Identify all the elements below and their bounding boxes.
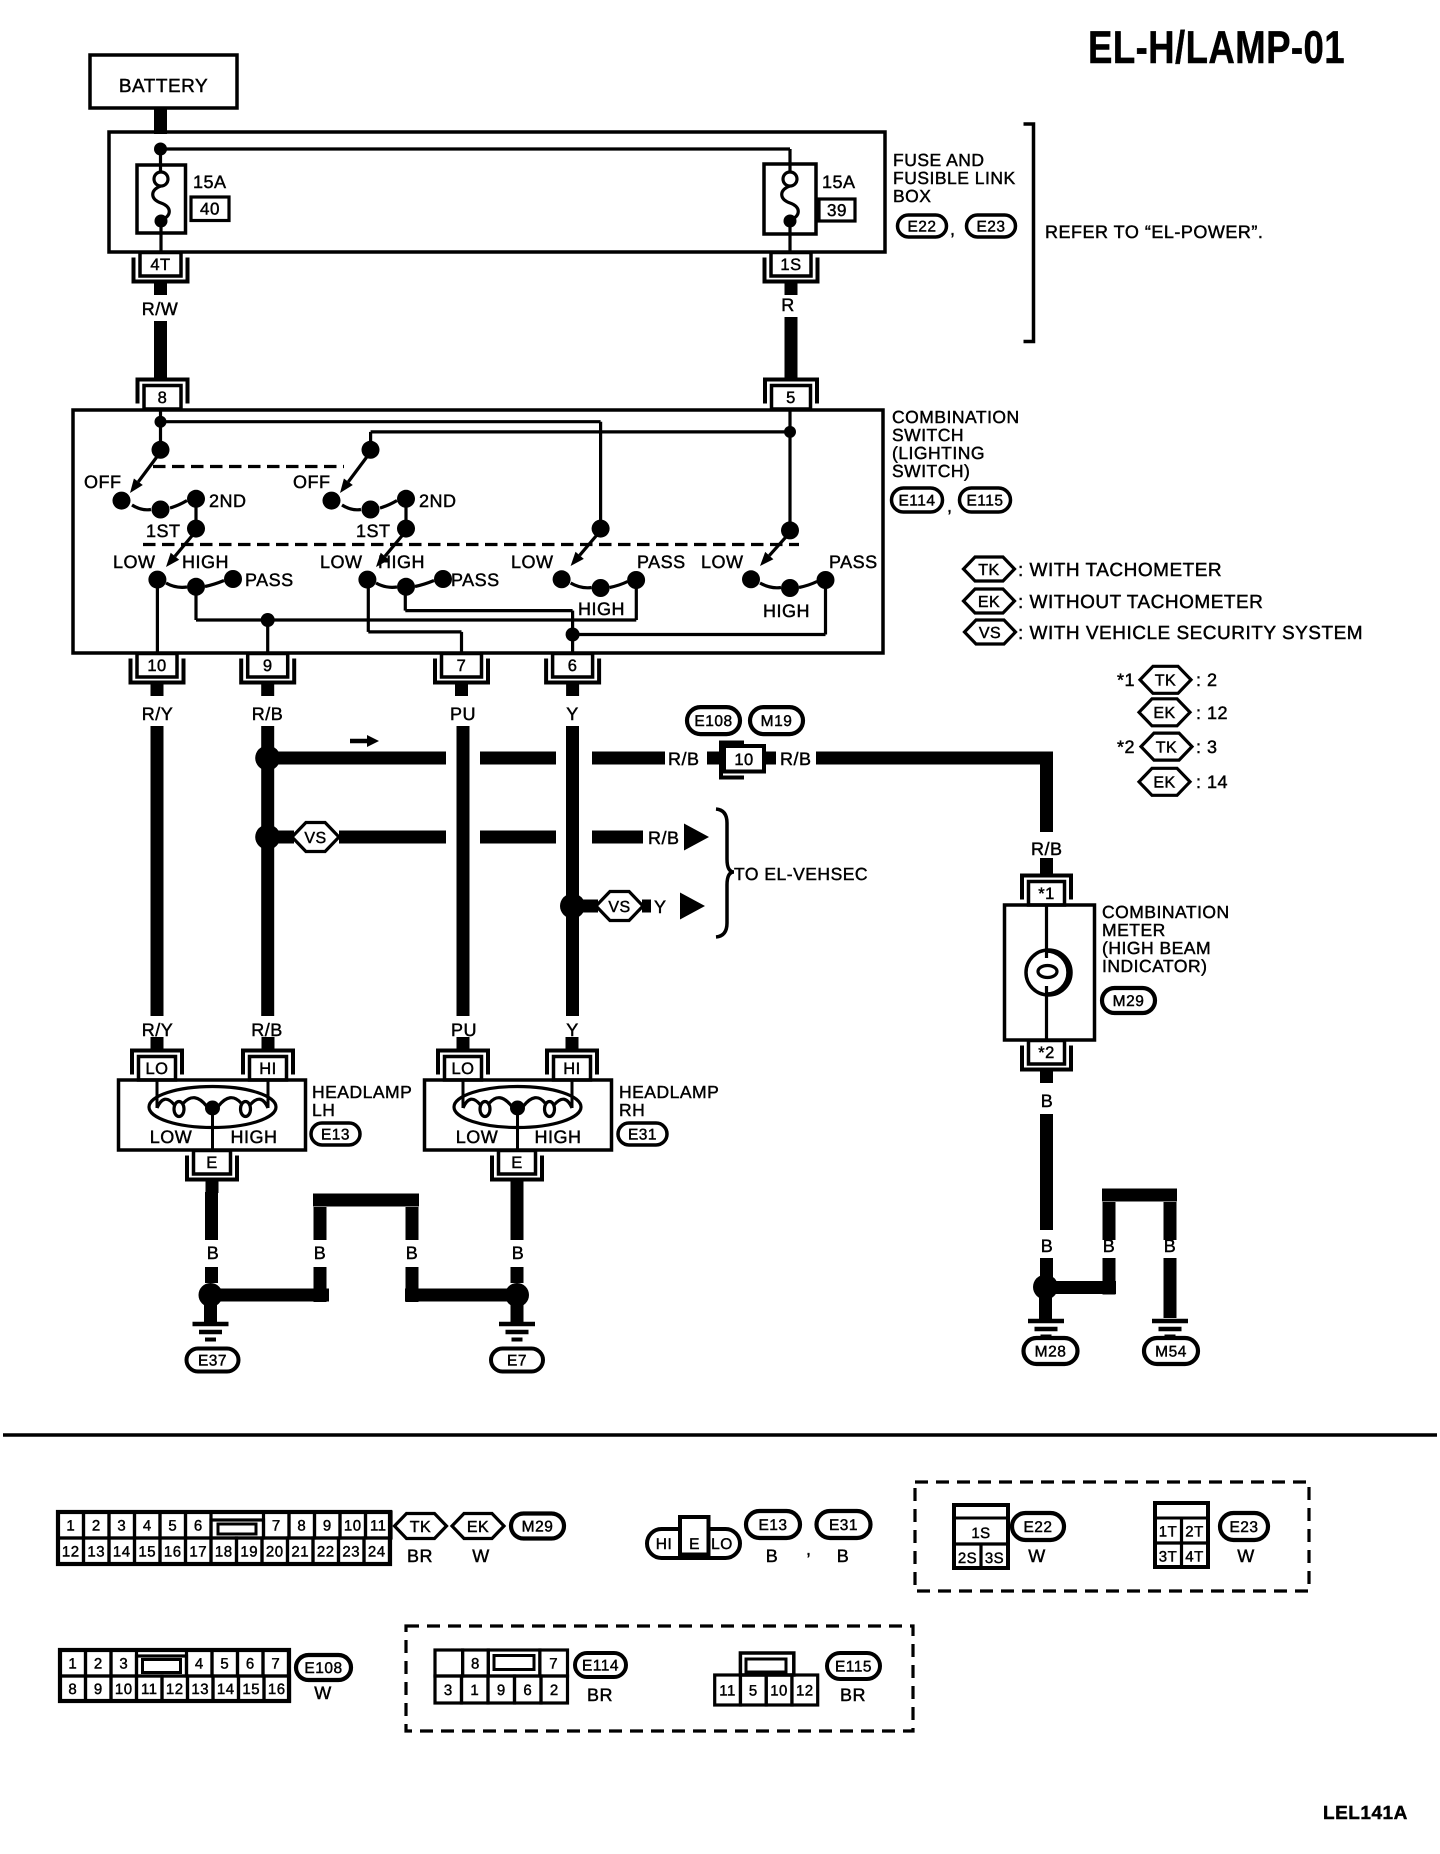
label *2	[1117, 737, 1135, 757]
wire R/B to combination meter	[816, 758, 1053, 832]
label HIGH g3	[578, 599, 625, 619]
svg-text:R: R	[781, 295, 795, 315]
svg-text:HIGH: HIGH	[535, 1127, 582, 1147]
svg-text:E23: E23	[1229, 1519, 1258, 1536]
wire B rh lower	[511, 1267, 524, 1283]
svg-text:LOW: LOW	[511, 552, 554, 572]
fuse and fusible link box outline	[109, 132, 885, 252]
svg-text:10: 10	[115, 1681, 133, 1698]
label PASS g4	[829, 552, 878, 572]
wire Y	[566, 726, 579, 1016]
node bus junction B	[784, 426, 796, 438]
svg-text:19: 19	[240, 1543, 258, 1560]
svg-text:40: 40	[200, 200, 220, 219]
label 15A fuse 40	[193, 172, 227, 192]
svg-text:(HIGH BEAM: (HIGH BEAM	[1102, 938, 1211, 958]
legend *1 TK	[1140, 666, 1191, 693]
wire U bend meter	[1102, 1195, 1177, 1240]
wire g1 LOW to connector 10	[156, 580, 159, 653]
connector HI headlamp RH	[547, 1037, 597, 1080]
label R/B vehsec	[648, 828, 680, 848]
arrow to el-vehsec 1	[684, 824, 709, 851]
connector E37 oval	[187, 1349, 239, 1372]
label BR tk	[407, 1546, 433, 1566]
svg-text:3: 3	[119, 1655, 128, 1672]
svg-text:E114: E114	[898, 493, 935, 510]
label PASS g3	[637, 552, 686, 572]
svg-text:*1: *1	[1038, 885, 1055, 903]
wire stub to VS hexagon Y	[578, 900, 598, 913]
svg-text:: 12: : 12	[1196, 703, 1228, 723]
label B u-left	[1103, 1236, 1116, 1256]
svg-text:B: B	[766, 1546, 779, 1566]
svg-text:12: 12	[62, 1543, 80, 1560]
svg-text:6: 6	[194, 1517, 203, 1534]
connector E headlamp RH	[492, 1151, 542, 1194]
wire lh ground link	[217, 1289, 329, 1302]
svg-text:10: 10	[770, 1682, 788, 1699]
svg-text:HIGH: HIGH	[763, 601, 810, 621]
wire B meter	[1040, 1114, 1053, 1230]
wire switch feed from connector 5	[788, 409, 791, 530]
svg-text:HEADLAMP: HEADLAMP	[619, 1082, 719, 1102]
wire E7 ground stub	[511, 1302, 524, 1322]
svg-text:LOW: LOW	[320, 552, 363, 572]
svg-text:10: 10	[344, 1517, 362, 1534]
label B lh	[207, 1243, 220, 1263]
hexagon TK bottom	[395, 1514, 447, 1539]
wire u-left lower	[1103, 1258, 1116, 1295]
wire u2 lower	[406, 1267, 419, 1302]
node R/B junction 2	[255, 825, 280, 850]
svg-text:EK: EK	[1153, 775, 1175, 792]
svg-text:13: 13	[87, 1543, 105, 1560]
node junction to connector 6	[566, 628, 580, 642]
svg-text:BOX: BOX	[893, 186, 931, 206]
svg-text:9: 9	[323, 1517, 332, 1534]
label BR e115	[840, 1685, 866, 1705]
svg-text:4T: 4T	[1185, 1549, 1204, 1566]
wire R/B branch segment 1	[273, 752, 446, 765]
svg-text:W: W	[472, 1546, 490, 1566]
svg-text:HIGH: HIGH	[378, 552, 425, 572]
wire B lh lower	[205, 1267, 218, 1283]
svg-text:HIGH: HIGH	[182, 552, 229, 572]
connector LO headlamp LH	[132, 1037, 182, 1080]
connector M29 pin view	[58, 1512, 391, 1564]
connector M29 oval bottom	[511, 1514, 564, 1539]
wire bus to group 3	[161, 422, 601, 529]
label 15A fuse 39	[822, 172, 856, 192]
node battery feed junction	[154, 143, 167, 156]
connector 8	[138, 380, 188, 410]
wire junction to connector 9	[266, 620, 269, 653]
label WITH TACHOMETER	[1018, 560, 1222, 581]
wire junction to g4 PASS	[573, 580, 826, 635]
label B rh	[512, 1243, 525, 1263]
svg-text:16: 16	[164, 1543, 182, 1560]
connector 5	[765, 380, 817, 410]
label 2ND g1	[209, 491, 247, 511]
node R/B junction 1	[255, 746, 280, 771]
svg-text:METER: METER	[1102, 920, 1166, 940]
svg-text:M29: M29	[1113, 993, 1145, 1010]
svg-text:VS: VS	[608, 899, 630, 916]
svg-text:LOW: LOW	[456, 1127, 499, 1147]
svg-text:E108: E108	[694, 713, 732, 730]
connector E108 oval bottom	[296, 1655, 351, 1680]
connector *2	[1022, 1041, 1071, 1084]
svg-text:LOW: LOW	[701, 552, 744, 572]
connector M54 oval	[1144, 1338, 1198, 1364]
wire M28 ground stub	[1039, 1295, 1052, 1319]
label WITHOUT TACHOMETER	[1018, 592, 1263, 613]
wire R/B	[261, 726, 274, 1016]
svg-text:11: 11	[141, 1681, 158, 1698]
svg-text:12: 12	[796, 1682, 814, 1699]
svg-text:B: B	[512, 1243, 525, 1263]
svg-text:B: B	[1103, 1236, 1116, 1256]
svg-text:2T: 2T	[1185, 1524, 1204, 1541]
connector E114 oval	[892, 488, 943, 512]
label B e13	[766, 1546, 779, 1566]
svg-text:9: 9	[497, 1682, 506, 1699]
wire stub to VS hexagon	[274, 831, 294, 844]
hexagon EK bottom	[452, 1514, 504, 1539]
svg-text:20: 20	[266, 1543, 284, 1560]
svg-text:39: 39	[827, 201, 847, 220]
connector 10 inline	[721, 743, 764, 778]
label R/B inline right	[780, 749, 812, 769]
svg-text:7: 7	[549, 1656, 558, 1673]
node junction to connector 9	[261, 613, 275, 627]
label B e31	[837, 1546, 850, 1566]
label FUSE AND FUSIBLE LINK BOX	[893, 150, 1016, 206]
svg-text:PU: PU	[451, 1020, 477, 1040]
label REFER TO EL-POWER	[1045, 222, 1263, 242]
label B u-right	[1164, 1236, 1177, 1256]
connector E115 oval bottom	[827, 1653, 880, 1679]
wire E37 ground stub	[204, 1302, 217, 1322]
svg-text:OFF: OFF	[84, 472, 122, 492]
label : 3	[1196, 737, 1218, 757]
legend *2 TK	[1141, 733, 1192, 760]
legend hexagon VS	[965, 620, 1016, 644]
svg-text:HI: HI	[259, 1060, 277, 1078]
dashed line upper	[153, 465, 344, 468]
connector E31 oval bottom	[817, 1511, 871, 1538]
svg-text:RH: RH	[619, 1100, 645, 1120]
svg-text:FUSE AND: FUSE AND	[893, 150, 985, 170]
label R/B meter	[1031, 839, 1063, 859]
svg-text:7: 7	[457, 657, 467, 675]
svg-text:OFF: OFF	[293, 472, 331, 492]
svg-text:1ST: 1ST	[356, 521, 391, 541]
svg-text:HIGH: HIGH	[578, 599, 625, 619]
svg-text:13: 13	[191, 1681, 209, 1698]
svg-text:M29: M29	[522, 1519, 554, 1536]
label B meter	[1041, 1091, 1054, 1111]
wire u-right lower	[1164, 1258, 1177, 1318]
legend *1 EK	[1139, 699, 1190, 726]
svg-text:6: 6	[246, 1655, 255, 1672]
svg-text:23: 23	[342, 1543, 360, 1560]
svg-text:VS: VS	[304, 830, 326, 847]
svg-text:8: 8	[471, 1656, 480, 1673]
svg-text:: WITH VEHICLE SECURITY SYSTEM: : WITH VEHICLE SECURITY SYSTEM	[1018, 623, 1363, 644]
svg-text:: 2: : 2	[1196, 670, 1218, 690]
label R/W	[142, 299, 179, 319]
separator line	[3, 1433, 1437, 1437]
svg-text:2: 2	[550, 1682, 559, 1699]
connector E108 oval	[687, 707, 740, 734]
label PU top	[450, 704, 476, 724]
label LOW g2	[320, 552, 363, 572]
connector E22 oval bottom	[1012, 1513, 1064, 1540]
svg-text:EK: EK	[978, 594, 1000, 611]
svg-text:E13: E13	[321, 1127, 350, 1144]
connector E114 oval bottom	[575, 1653, 626, 1677]
wire stub after VS hexagon Y	[642, 900, 651, 913]
label W e108	[314, 1683, 332, 1703]
svg-text:W: W	[1237, 1546, 1255, 1566]
wire switch feed from connector 8	[159, 410, 162, 450]
svg-text:COMBINATION: COMBINATION	[1102, 902, 1230, 922]
svg-text:1: 1	[470, 1682, 479, 1699]
svg-text:15: 15	[138, 1543, 156, 1560]
svg-text:Y: Y	[566, 1020, 579, 1040]
label LOW g4	[701, 552, 744, 572]
label B u1	[314, 1243, 327, 1263]
label R/Y top	[142, 704, 174, 724]
svg-text:18: 18	[215, 1543, 233, 1560]
svg-text:5: 5	[749, 1682, 758, 1699]
hexagon VS on Y branch	[596, 892, 643, 921]
comma	[950, 219, 956, 239]
svg-text:3: 3	[117, 1517, 126, 1534]
connector E115 pin view	[715, 1653, 818, 1705]
svg-text:3S: 3S	[985, 1550, 1004, 1567]
wire fuse 40 top lead	[159, 149, 162, 172]
svg-text:6: 6	[568, 657, 578, 675]
wire rh ground link	[405, 1289, 511, 1302]
svg-text:TK: TK	[1156, 739, 1177, 756]
wire fuse box bus	[161, 149, 791, 172]
label R/B top	[252, 704, 284, 724]
ground M54	[1152, 1321, 1188, 1337]
svg-text:B: B	[314, 1243, 327, 1263]
connector E108 pin view	[60, 1650, 290, 1701]
wire battery to fuse box	[154, 108, 167, 134]
svg-text:8: 8	[68, 1681, 77, 1698]
svg-text:: 14: : 14	[1196, 772, 1228, 792]
svg-text:LEL141A: LEL141A	[1323, 1803, 1408, 1824]
label WITH VEHICLE SECURITY SYSTEM	[1018, 623, 1363, 644]
node ground junction E37	[199, 1283, 223, 1307]
connector HI E LO pin view	[647, 1517, 740, 1558]
dashed box E114 E115	[406, 1626, 913, 1731]
label LOW g3	[511, 552, 554, 572]
switch group 1 (lighting switch LH)	[113, 441, 243, 596]
wire g1 HIGH to g3 PASS	[196, 580, 636, 620]
wire R	[785, 317, 798, 378]
label : 2	[1196, 670, 1218, 690]
wire bus to group 2	[371, 432, 790, 450]
svg-text:BR: BR	[840, 1685, 866, 1705]
connector E31 oval	[618, 1123, 667, 1145]
svg-text:INDICATOR): INDICATOR)	[1102, 956, 1207, 976]
arrow direction marker	[350, 735, 379, 747]
svg-text:E: E	[511, 1154, 523, 1172]
svg-text:FUSIBLE LINK: FUSIBLE LINK	[893, 168, 1016, 188]
svg-text:LOW: LOW	[150, 1127, 193, 1147]
label HEADLAMP LH	[312, 1082, 412, 1120]
svg-text:B: B	[1164, 1236, 1177, 1256]
connector E13 oval bottom	[746, 1511, 800, 1538]
svg-text:1: 1	[68, 1655, 77, 1672]
label PASS g2	[451, 570, 500, 590]
svg-text:EL-H/LAMP-01: EL-H/LAMP-01	[1088, 21, 1345, 73]
connector E23 oval bottom	[1220, 1513, 1268, 1540]
label COMBINATION METER (HIGH BEAM INDICATOR)	[1102, 902, 1230, 976]
svg-text:BR: BR	[407, 1546, 433, 1566]
svg-text:W: W	[1028, 1546, 1046, 1566]
svg-text:R/W: R/W	[142, 299, 179, 319]
connector 9	[241, 654, 294, 697]
connector 4T	[134, 253, 188, 296]
svg-text:2ND: 2ND	[419, 491, 457, 511]
connector E13 oval	[311, 1123, 360, 1145]
brace to el-vehsec	[716, 809, 734, 937]
svg-text:,: ,	[806, 1539, 812, 1559]
label 1ST g1	[146, 521, 181, 541]
svg-text:12: 12	[166, 1681, 184, 1698]
svg-text:: WITH TACHOMETER: : WITH TACHOMETER	[1018, 560, 1222, 581]
svg-text:TK: TK	[1155, 673, 1176, 690]
connector M19 oval	[750, 707, 803, 734]
svg-text:17: 17	[189, 1543, 207, 1560]
svg-text:E31: E31	[628, 1127, 657, 1144]
label W ek	[472, 1546, 490, 1566]
svg-text:R/Y: R/Y	[142, 704, 174, 724]
svg-text:8: 8	[158, 389, 168, 407]
svg-text:BR: BR	[587, 1685, 613, 1705]
label : 12	[1196, 703, 1228, 723]
hexagon VS on R/B branch	[292, 823, 339, 852]
svg-text:TK: TK	[410, 1519, 431, 1536]
svg-text:HI: HI	[563, 1060, 581, 1078]
node bus junction A	[155, 416, 167, 428]
svg-text:2: 2	[92, 1517, 101, 1534]
label 2ND g2	[419, 491, 457, 511]
svg-text:22: 22	[317, 1543, 335, 1560]
wire VS R/B segment 3	[592, 831, 643, 844]
svg-text:(LIGHTING: (LIGHTING	[892, 443, 985, 463]
svg-text:1ST: 1ST	[146, 521, 181, 541]
svg-text:R/B: R/B	[251, 1020, 283, 1040]
svg-text:EK: EK	[1153, 705, 1175, 722]
svg-text:BATTERY: BATTERY	[119, 76, 208, 97]
svg-text:10: 10	[734, 751, 753, 769]
switch group 3 (dimmer/passing LH)	[553, 520, 646, 597]
svg-text:7: 7	[272, 1517, 281, 1534]
svg-text:E31: E31	[829, 1517, 858, 1534]
fuse number 40	[191, 197, 229, 221]
legend hexagon EK	[964, 589, 1015, 613]
label 1ST g2	[356, 521, 391, 541]
svg-text:EK: EK	[467, 1519, 489, 1536]
svg-text:9: 9	[94, 1681, 103, 1698]
svg-text:R/Y: R/Y	[142, 1020, 174, 1040]
svg-text:R/B: R/B	[1031, 839, 1063, 859]
svg-text:4: 4	[143, 1517, 152, 1534]
connector 6	[546, 654, 599, 697]
label R/Y bottom	[142, 1020, 174, 1040]
svg-text:11: 11	[370, 1517, 387, 1534]
label W e23	[1237, 1546, 1255, 1566]
svg-text:*2: *2	[1117, 737, 1135, 757]
svg-text:E108: E108	[304, 1660, 342, 1677]
svg-text:3T: 3T	[1159, 1549, 1178, 1566]
label B u2	[406, 1243, 419, 1263]
wire R/B branch segment 2	[480, 752, 556, 765]
svg-text:LO: LO	[145, 1060, 168, 1078]
svg-text:R/B: R/B	[648, 828, 680, 848]
label LOW g1	[113, 552, 156, 572]
node ground junction M28	[1033, 1275, 1058, 1300]
svg-text:: 3: : 3	[1196, 737, 1218, 757]
svg-text:E13: E13	[758, 1517, 787, 1534]
connector 1S	[765, 253, 818, 296]
svg-text:8: 8	[297, 1517, 306, 1534]
label Y top	[566, 704, 579, 724]
connector E22 oval	[898, 215, 947, 237]
svg-text:LH: LH	[312, 1100, 335, 1120]
battery BATTERY	[90, 55, 237, 108]
ground M28	[1028, 1321, 1064, 1337]
svg-text:REFER TO “EL-POWER”.: REFER TO “EL-POWER”.	[1045, 222, 1263, 242]
svg-text:R/B: R/B	[252, 704, 284, 724]
svg-text:E114: E114	[582, 1658, 619, 1675]
bracket refer to el-power	[1024, 124, 1034, 342]
label Y bottom	[566, 1020, 579, 1040]
wire R/B branch segment 3	[592, 752, 665, 765]
ground E37	[193, 1324, 229, 1340]
svg-text:21: 21	[291, 1543, 309, 1560]
svg-text:1: 1	[66, 1517, 75, 1534]
headlamp LH	[119, 1080, 306, 1150]
wire B headlamp RH	[511, 1192, 524, 1240]
svg-text:E115: E115	[835, 1659, 872, 1676]
svg-text:5: 5	[220, 1655, 229, 1672]
svg-text:PU: PU	[450, 704, 476, 724]
label TO EL-VEHSEC	[734, 864, 868, 884]
connector E114 pin view	[435, 1650, 568, 1703]
svg-text:2ND: 2ND	[209, 491, 247, 511]
label PU bottom	[451, 1020, 477, 1040]
svg-text:15A: 15A	[822, 172, 856, 192]
svg-text:1T: 1T	[1159, 1524, 1178, 1541]
connector E115 oval	[960, 488, 1011, 512]
svg-text:E23: E23	[976, 219, 1005, 236]
svg-text:15A: 15A	[193, 172, 227, 192]
svg-text:LO: LO	[711, 1536, 733, 1553]
wire R/W	[154, 321, 167, 378]
svg-text:9: 9	[263, 657, 273, 675]
svg-text:B: B	[406, 1243, 419, 1263]
svg-text:2S: 2S	[958, 1550, 977, 1567]
label W e22	[1028, 1546, 1046, 1566]
